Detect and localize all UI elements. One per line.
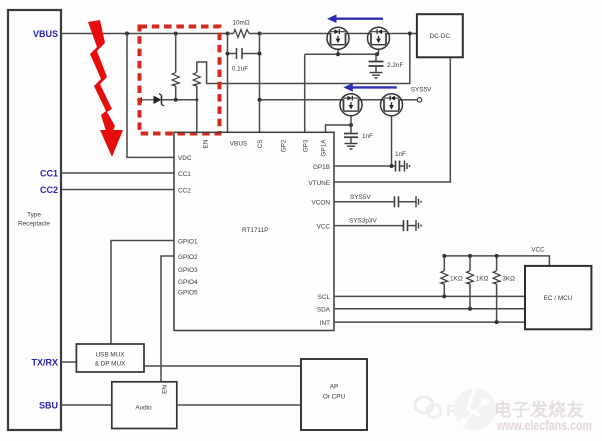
capacitor on VCC — [404, 220, 417, 231]
sideways ground for VCC cap — [416, 220, 421, 231]
wire SBU to Audio — [61, 404, 112, 406]
svg-text:GP1A: GP1A — [321, 139, 328, 157]
wire TX/RX to USB MUX — [61, 361, 76, 363]
resistor R1 in protection box — [172, 34, 179, 100]
resistor 10mohm current sense — [232, 19, 249, 37]
wire GP1B from IC — [334, 165, 395, 167]
svg-text:CC1: CC1 — [178, 171, 191, 178]
svg-text:RT1711P: RT1711P — [242, 227, 268, 234]
svg-text:1nF: 1nF — [395, 151, 406, 158]
sideways ground for GP1B 1nF — [405, 161, 410, 172]
svg-text:GPIO2: GPIO2 — [178, 254, 198, 261]
svg-text:GPIO3: GPIO3 — [178, 267, 198, 274]
node SCL pullup bottom — [442, 294, 446, 298]
svg-text:EN: EN — [203, 139, 210, 148]
svg-text:VTUNE: VTUNE — [308, 180, 330, 187]
wire USB MUX to AP — [144, 365, 301, 367]
svg-text:CC2: CC2 — [40, 185, 58, 195]
svg-text:EC / MCU: EC / MCU — [544, 295, 573, 302]
wire CS node to MOSFET Q3 — [260, 99, 341, 101]
svg-text:10mΩ: 10mΩ — [232, 19, 249, 26]
svg-text:电子发烧友: 电子发烧友 — [494, 400, 585, 420]
wire GPIO1 to USB MUX — [111, 241, 174, 345]
ground for GP1A 1nF — [345, 144, 358, 149]
node Q1 gate on bus — [336, 52, 340, 56]
svg-text:VBUS: VBUS — [230, 141, 247, 148]
node INT pullup bottom — [495, 320, 499, 324]
ground for 2.2nF — [370, 73, 383, 78]
svg-text:1KΩ: 1KΩ — [476, 276, 489, 283]
wire SDA row — [334, 308, 525, 310]
svg-text:AP: AP — [330, 383, 339, 390]
wire GP3 column to gate bus — [304, 54, 306, 132]
wire SCL row — [334, 295, 525, 297]
wire CS pin column — [259, 34, 261, 133]
Type-C receptacle box — [8, 10, 61, 430]
wire VTUNE to DC-DC output — [334, 57, 450, 182]
node pullup INT top — [495, 254, 499, 258]
svg-text:VBUS: VBUS — [33, 29, 58, 39]
svg-text:VCON: VCON — [312, 200, 331, 207]
node R1 bottom / diode row — [174, 98, 178, 102]
svg-text:EN: EN — [162, 385, 169, 394]
DC-DC converter box — [417, 14, 463, 57]
node DC-DC input — [408, 32, 412, 36]
svg-text:VCC: VCC — [531, 246, 545, 253]
node CS column / Q3 wire — [258, 98, 262, 102]
svg-text:SDA: SDA — [317, 307, 331, 314]
node 0.1uF right — [258, 52, 262, 56]
node VBUS wire in protection box — [174, 32, 178, 36]
svg-text:1KΩ: 1KΩ — [450, 276, 463, 283]
IC U1 RT1711P — [174, 132, 334, 330]
resistor 3Kohm pullup INT — [493, 256, 515, 322]
USB MUX and DP MUX box — [76, 344, 144, 372]
svg-text:SBU: SBU — [39, 400, 58, 410]
wire between Q3 and Q4 — [362, 99, 381, 101]
node Q2 gate / 2.2nF on bus — [375, 52, 379, 56]
sideways ground for VCON cap — [416, 196, 421, 207]
Audio box — [112, 382, 177, 429]
EC/MCU box — [525, 266, 591, 329]
wire CC2 receptacle to IC — [61, 189, 174, 191]
svg-text:VDC: VDC — [178, 155, 192, 162]
svg-text:SYS5V: SYS5V — [350, 194, 371, 201]
svg-text:GP1B: GP1B — [313, 164, 330, 171]
wire Q1 gate lead — [337, 49, 339, 55]
ESD surge lightning bolt symbol — [88, 20, 123, 157]
wire VCC row — [334, 225, 404, 227]
svg-text:CC2: CC2 — [178, 187, 191, 194]
svg-text:GPIO5: GPIO5 — [178, 289, 198, 296]
svg-text:USB MUX: USB MUX — [95, 352, 125, 359]
transistor Q3 MOSFET — [340, 94, 362, 116]
wire VBUS from receptacle to 10mohm resistor — [61, 33, 234, 35]
capacitor 1nF on GP1B — [395, 151, 406, 172]
transistor Q2 MOSFET — [368, 27, 390, 49]
svg-text:www.elecfans.com: www.elecfans.com — [496, 418, 592, 433]
svg-text:3KΩ: 3KΩ — [502, 276, 515, 283]
capacitor 0.1uF across sense resistor — [228, 48, 260, 73]
wire R2 top hook to DC-DC input node — [197, 34, 410, 84]
wire VCC rail for pullups — [444, 256, 549, 266]
svg-text:SCL: SCL — [318, 294, 331, 301]
terminal SYS5V open circle — [417, 98, 421, 102]
wire gate bus of Q1 Q2 — [305, 53, 379, 55]
svg-text:Type: Type — [27, 212, 41, 219]
transistor Q1 MOSFET — [327, 27, 349, 49]
svg-text:0.1uF: 0.1uF — [232, 66, 248, 73]
watermark logo circle — [415, 388, 496, 430]
wire INT row — [334, 321, 525, 323]
resistor 1Kohm pullup SDA — [467, 256, 489, 309]
wire CC1 receptacle to IC — [61, 172, 174, 174]
wire VCON row — [334, 201, 395, 203]
svg-text:DC-DC: DC-DC — [430, 33, 451, 40]
blue arrow current direction second row — [343, 83, 397, 92]
svg-text:Audio: Audio — [135, 405, 152, 412]
svg-text:GP2: GP2 — [281, 139, 288, 152]
wire Q4 to SYS5V terminal — [403, 99, 418, 101]
svg-text:2.2nF: 2.2nF — [387, 62, 403, 69]
wire VDC from VBUS node down to IC VDC pin — [127, 34, 174, 158]
transistor Q4 MOSFET — [381, 94, 403, 116]
svg-text:GPIO1: GPIO1 — [178, 238, 198, 245]
node GP1B / Q4 gate — [390, 164, 394, 168]
resistor R2 in protection box — [193, 73, 200, 100]
wire VBUS resistor to MOSFET Q1 — [249, 33, 327, 35]
svg-text:INT: INT — [320, 320, 330, 327]
blue arrow current direction top — [327, 14, 383, 23]
red dashed protection box — [140, 27, 220, 134]
svg-text:GPIO4: GPIO4 — [178, 279, 198, 286]
svg-text:SYS3p3V: SYS3p3V — [349, 218, 377, 225]
resistor 1Kohm pullup SCL — [441, 256, 463, 297]
node R2 bottom / EN column — [195, 98, 198, 101]
wire GP1A elbow to Q3 gate — [326, 125, 352, 132]
wire Q4 gate column to GP1B row — [391, 116, 393, 166]
zener diode D1 in protection box — [137, 94, 197, 106]
svg-text:CC1: CC1 — [40, 168, 58, 178]
capacitor 2.2nF on gate bus — [369, 54, 404, 72]
svg-text:CS: CS — [257, 140, 264, 149]
node resistor right / CS pin column — [258, 32, 262, 36]
wire Audio to AP — [177, 404, 301, 406]
node Q3 gate / 1nF — [349, 123, 353, 127]
node VBUS/VDC junction — [125, 32, 129, 36]
svg-text:& DP MUX: & DP MUX — [95, 361, 127, 368]
node SDA pullup bottom — [468, 307, 472, 311]
svg-text:1nF: 1nF — [362, 133, 373, 140]
wire EN column to IC — [196, 100, 198, 133]
node pullup SDA top — [468, 254, 472, 258]
svg-text:TX/RX: TX/RX — [31, 357, 58, 367]
wire VBUS between Q2 and DC-DC — [390, 33, 417, 35]
svg-text:Receptacle: Receptacle — [18, 221, 50, 228]
capacitor on VCON — [395, 196, 417, 207]
AP or CPU box — [301, 359, 367, 430]
wire GPIO2 to Audio EN — [161, 256, 174, 382]
svg-text:GP3: GP3 — [303, 139, 310, 152]
capacitor 1nF on GP1A — [344, 125, 373, 144]
node resistor left / VBUS pin column — [226, 32, 230, 36]
wire Q2 gate lead — [378, 49, 380, 55]
node pullup SCL top — [442, 254, 446, 258]
wire between Q1 and Q2 — [349, 33, 368, 35]
svg-text:SYS5V: SYS5V — [411, 87, 432, 94]
svg-text:Or CPU: Or CPU — [323, 393, 346, 400]
svg-text:VCC: VCC — [317, 223, 331, 230]
node 0.1uF left — [226, 52, 230, 56]
wire Q3 gate lead — [350, 116, 352, 125]
wire VBUS pin column — [227, 34, 229, 133]
